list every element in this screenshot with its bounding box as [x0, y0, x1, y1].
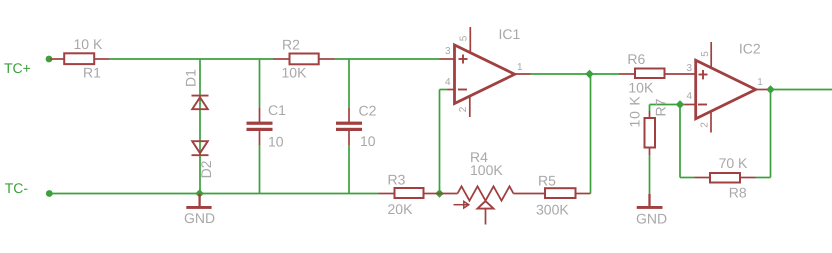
svg-text:2: 2: [699, 122, 710, 128]
svg-text:R2: R2: [282, 37, 300, 53]
svg-text:3: 3: [445, 46, 451, 57]
svg-text:3: 3: [687, 63, 693, 74]
svg-text:R7: R7: [653, 98, 669, 116]
svg-text:1: 1: [757, 77, 763, 88]
svg-text:R8: R8: [729, 184, 747, 200]
svg-text:R3: R3: [388, 171, 406, 187]
svg-text:D1: D1: [183, 69, 199, 87]
svg-text:10: 10: [268, 134, 284, 150]
svg-text:10 K: 10 K: [74, 36, 103, 52]
svg-text:R6: R6: [627, 51, 645, 67]
svg-text:100K: 100K: [470, 162, 503, 178]
svg-text:10K: 10K: [628, 80, 654, 96]
svg-text:2: 2: [458, 106, 469, 112]
svg-text:4: 4: [445, 77, 451, 88]
svg-text:10: 10: [360, 133, 376, 149]
svg-text:4: 4: [687, 91, 693, 102]
svg-text:TC+: TC+: [4, 60, 31, 76]
svg-text:C1: C1: [268, 102, 286, 118]
svg-text:GND: GND: [184, 210, 215, 226]
svg-text:5: 5: [700, 51, 711, 57]
svg-text:1: 1: [517, 62, 523, 73]
svg-text:10 K: 10 K: [627, 96, 643, 128]
svg-text:10K: 10K: [282, 64, 308, 80]
svg-text:IC2: IC2: [739, 41, 761, 57]
svg-text:R5: R5: [538, 173, 556, 189]
svg-text:5: 5: [458, 35, 469, 41]
svg-text:TC-: TC-: [5, 180, 29, 196]
svg-text:R1: R1: [83, 65, 101, 81]
svg-text:C2: C2: [359, 103, 377, 119]
svg-text:IC1: IC1: [499, 26, 521, 42]
svg-text:GND: GND: [636, 211, 667, 227]
svg-text:70 K: 70 K: [719, 155, 748, 171]
svg-text:D2: D2: [198, 160, 214, 178]
svg-text:20K: 20K: [388, 201, 414, 217]
svg-text:300K: 300K: [536, 202, 569, 218]
